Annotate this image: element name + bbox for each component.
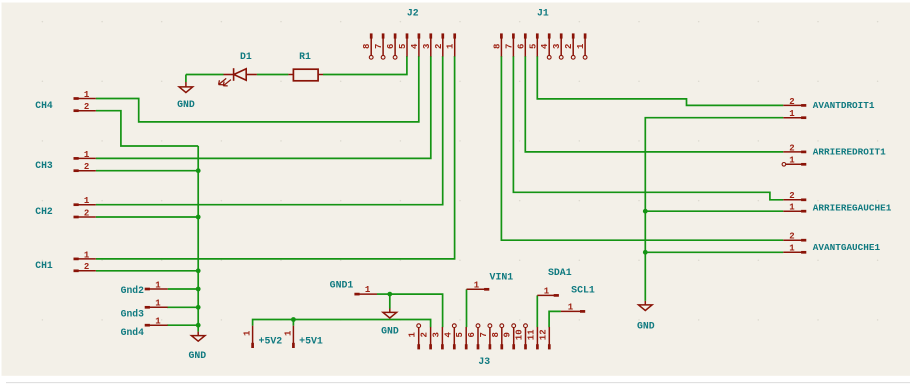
wire +5V rail to J3 pin 2 bbox=[253, 320, 431, 328]
connector CH3 pin 2 bbox=[74, 169, 79, 172]
junction Gnd3/trunk bbox=[196, 305, 201, 310]
svg-text:GND: GND bbox=[188, 350, 206, 361]
svg-text:2: 2 bbox=[420, 332, 430, 337]
wire J1 pin 5 to AVANTDROIT1 pin 2 bbox=[537, 56, 783, 105]
wire GND1 down stub bbox=[389, 294, 391, 308]
wire CH3 pin1 to J2 pin 3 bbox=[96, 56, 431, 158]
connector +5V1 pin 1 bbox=[292, 343, 295, 348]
connector +5V2 pin 1 bbox=[251, 343, 254, 348]
svg-text:1: 1 bbox=[568, 302, 574, 312]
connector AVANTDROIT1 pin 1 bbox=[801, 116, 806, 119]
connector J2 pin 4 bbox=[418, 33, 421, 38]
svg-text:2: 2 bbox=[84, 208, 89, 218]
svg-text:GND: GND bbox=[637, 320, 655, 331]
svg-text:2: 2 bbox=[789, 143, 794, 153]
junction CH2.2/trunk bbox=[196, 215, 201, 220]
svg-text:2: 2 bbox=[84, 162, 89, 172]
svg-text:AVANTDROIT1: AVANTDROIT1 bbox=[813, 100, 875, 111]
wire CH2 pin1 to J2 pin 2 bbox=[96, 56, 443, 205]
wire Gnd2 to trunk bbox=[168, 288, 199, 290]
svg-text:4: 4 bbox=[443, 332, 453, 338]
connector J3 pin 3 bbox=[441, 344, 444, 349]
ground symbol near D1 bbox=[185, 82, 187, 87]
svg-text:1: 1 bbox=[283, 330, 293, 336]
svg-text:D1: D1 bbox=[240, 51, 252, 62]
svg-text:1: 1 bbox=[84, 250, 90, 260]
LED D1 bbox=[219, 68, 257, 86]
connector CH1 pin 1 bbox=[74, 258, 79, 261]
connector ARRIEREGAUCHE1 pin 1 bbox=[801, 210, 806, 213]
svg-text:1: 1 bbox=[576, 43, 586, 49]
svg-text:1: 1 bbox=[789, 156, 795, 166]
ground symbol right trunk bbox=[644, 301, 646, 305]
svg-text:2: 2 bbox=[789, 97, 794, 107]
svg-text:8: 8 bbox=[491, 332, 501, 337]
wire CH3 pin2 to GND trunk bbox=[96, 170, 198, 172]
resistor R1 bbox=[288, 69, 323, 81]
wire CH1 pin2 to GND trunk bbox=[96, 270, 198, 272]
svg-text:4: 4 bbox=[410, 43, 420, 49]
connector J3 pin 8 bbox=[500, 344, 503, 349]
svg-text:5: 5 bbox=[455, 332, 465, 337]
wire right GND trunk from AVANTDROIT1 pin 1 bbox=[645, 118, 783, 301]
connector CH2 pin 2 bbox=[74, 216, 79, 219]
connector CH4 pin 2 bbox=[74, 109, 79, 112]
connector J3 pin 1 bbox=[417, 344, 420, 349]
svg-text:1: 1 bbox=[84, 90, 90, 100]
wire SDA1 to J3 pin 11 bbox=[536, 295, 538, 327]
connector J1 pin 3 bbox=[560, 33, 563, 38]
connector J2 pin 1 bbox=[453, 33, 456, 38]
svg-text:Gnd4: Gnd4 bbox=[121, 327, 144, 338]
svg-text:5: 5 bbox=[528, 44, 538, 49]
svg-text:7: 7 bbox=[479, 332, 489, 337]
svg-text:2: 2 bbox=[789, 232, 794, 242]
junction AVANTGAUCHE1.1/right trunk bbox=[643, 250, 648, 255]
wire D1 to R1 bbox=[257, 74, 289, 76]
svg-text:1: 1 bbox=[155, 317, 161, 327]
wire Gnd4 to trunk bbox=[167, 324, 198, 326]
svg-text:1: 1 bbox=[155, 299, 161, 309]
svg-text:5: 5 bbox=[398, 44, 408, 49]
svg-text:CH1: CH1 bbox=[35, 260, 53, 271]
connector CH1 pin 2 bbox=[74, 269, 79, 272]
svg-text:SCL1: SCL1 bbox=[571, 285, 595, 296]
junction CH3.2/trunk bbox=[196, 168, 201, 173]
svg-text:12: 12 bbox=[538, 329, 548, 340]
wire J1 pin 7 to ARRIEREGAUCHE1 pin 2 bbox=[513, 56, 783, 200]
connector SDA1 pin 1 bbox=[554, 294, 559, 297]
connector ARRIEREDROIT1 pin 2 bbox=[801, 151, 806, 154]
svg-text:R1: R1 bbox=[299, 51, 311, 62]
connector CH4 pin 1 bbox=[74, 97, 79, 100]
connector Gnd2 pin 1 bbox=[145, 288, 150, 291]
svg-text:AVANTGAUCHE1: AVANTGAUCHE1 bbox=[813, 242, 881, 253]
wire GND stub vertical bbox=[185, 75, 187, 83]
wire Gnd3 to trunk bbox=[167, 306, 198, 308]
svg-text:2: 2 bbox=[434, 44, 444, 49]
wire GND stub to D1 anode bbox=[186, 74, 224, 76]
connector J1 pin 5 bbox=[536, 33, 539, 38]
connector J1 pin 4 bbox=[548, 33, 551, 38]
wire left GND trunk bbox=[197, 146, 199, 332]
svg-text:1: 1 bbox=[408, 332, 418, 338]
connector VIN1 pin 1 bbox=[484, 288, 489, 291]
svg-text:GND1: GND1 bbox=[330, 279, 354, 290]
wire CH1 pin1 to J2 pin 1 bbox=[96, 56, 455, 259]
connector AVANTGAUCHE1 pin 2 bbox=[801, 239, 806, 242]
svg-text:1: 1 bbox=[155, 280, 161, 290]
svg-text:CH2: CH2 bbox=[35, 206, 53, 217]
svg-text:6: 6 bbox=[516, 44, 526, 49]
wire CH4 pin1 to J2 pin 4 bbox=[96, 56, 419, 122]
connector J3 pin 9 bbox=[512, 344, 515, 349]
junction GND1 bbox=[387, 292, 392, 297]
connector J2 pin 7 bbox=[382, 33, 385, 38]
svg-text:ARRIEREDROIT1: ARRIEREDROIT1 bbox=[813, 147, 886, 158]
connector Gnd4 pin 1 bbox=[145, 324, 150, 327]
svg-text:CH4: CH4 bbox=[35, 100, 53, 111]
svg-text:1: 1 bbox=[544, 286, 550, 296]
svg-text:VIN1: VIN1 bbox=[490, 272, 514, 283]
svg-text:ARRIEREGAUCHE1: ARRIEREGAUCHE1 bbox=[813, 202, 892, 213]
junction CH1.2/trunk bbox=[196, 268, 201, 273]
svg-text:+5V2: +5V2 bbox=[259, 335, 283, 346]
svg-text:2: 2 bbox=[564, 44, 574, 49]
svg-text:1: 1 bbox=[84, 150, 90, 160]
svg-text:J1: J1 bbox=[537, 7, 549, 18]
connector AVANTDROIT1 pin 2 bbox=[801, 104, 806, 107]
junction Gnd2/trunk bbox=[196, 287, 201, 292]
connector AVANTGAUCHE1 pin 1 bbox=[801, 251, 806, 254]
connector J3 pin 7 bbox=[489, 344, 492, 349]
svg-text:6: 6 bbox=[386, 44, 396, 49]
svg-text:2: 2 bbox=[789, 191, 794, 201]
connector J1 pin 1 bbox=[584, 33, 587, 38]
svg-text:3: 3 bbox=[431, 332, 441, 337]
connector J2 pin 6 bbox=[394, 33, 397, 38]
connector J3 pin 6 bbox=[477, 344, 480, 349]
svg-text:3: 3 bbox=[552, 44, 562, 49]
svg-text:GND: GND bbox=[381, 326, 399, 337]
svg-text:J2: J2 bbox=[407, 7, 419, 18]
connector J3 pin 10 bbox=[524, 344, 527, 349]
svg-text:3: 3 bbox=[422, 44, 432, 49]
wire J1 pin 6 to ARRIEREDROIT1 pin 2 bbox=[525, 56, 783, 152]
connector J3 pin 11 bbox=[536, 344, 539, 349]
junction +5V1/rail bbox=[291, 317, 296, 322]
connector GND1 pin 1 bbox=[354, 293, 359, 296]
svg-text:1: 1 bbox=[84, 196, 90, 206]
ground symbol under GND1 bbox=[389, 309, 391, 313]
connector Gnd3 pin 1 bbox=[145, 306, 150, 309]
wire AVANTGAUCHE1 pin 1 to right trunk bbox=[645, 251, 783, 253]
svg-text:9: 9 bbox=[503, 332, 513, 337]
connector J1 pin 2 bbox=[572, 33, 575, 38]
svg-text:1: 1 bbox=[474, 280, 480, 290]
ground symbol under left trunk bbox=[197, 332, 199, 336]
connector J1 pin 6 bbox=[524, 33, 527, 38]
svg-text:8: 8 bbox=[362, 44, 372, 49]
svg-text:6: 6 bbox=[467, 332, 477, 337]
wire VIN1 to J3 pin 5 bbox=[466, 289, 468, 327]
svg-text:SDA1: SDA1 bbox=[548, 267, 572, 278]
svg-text:GND: GND bbox=[177, 99, 195, 110]
connector CH2 pin 1 bbox=[74, 203, 79, 206]
svg-text:1: 1 bbox=[789, 203, 795, 213]
svg-text:1: 1 bbox=[365, 285, 371, 295]
svg-text:1: 1 bbox=[243, 330, 253, 336]
svg-text:2: 2 bbox=[84, 102, 89, 112]
wire R1 to J2 pin 5 bbox=[323, 56, 407, 75]
wire SCL1 to J3 pin 12 bbox=[549, 311, 561, 327]
connector CH3 pin 1 bbox=[74, 157, 79, 160]
svg-text:8: 8 bbox=[492, 44, 502, 49]
svg-text:CH3: CH3 bbox=[35, 160, 53, 171]
svg-text:1: 1 bbox=[446, 43, 456, 49]
connector J3 pin 4 bbox=[453, 344, 456, 349]
wire CH4 pin2 to GND trunk bbox=[96, 111, 198, 146]
connector J2 pin 8 bbox=[370, 33, 373, 38]
connector J1 pin 8 bbox=[500, 33, 503, 38]
svg-text:Gnd2: Gnd2 bbox=[121, 285, 144, 296]
connector J1 pin 7 bbox=[512, 33, 515, 38]
svg-text:Gnd3: Gnd3 bbox=[121, 308, 144, 319]
wire +5V1 stub bbox=[292, 320, 294, 326]
connector J2 pin 5 bbox=[406, 33, 409, 38]
svg-text:J3: J3 bbox=[478, 356, 490, 367]
svg-text:11: 11 bbox=[526, 329, 536, 340]
wire ARRIEREGAUCHE1 pin 1 to right trunk bbox=[645, 210, 783, 212]
connector ARRIEREGAUCHE1 pin 2 bbox=[801, 198, 806, 201]
connector J3 pin 12 bbox=[548, 344, 551, 349]
wire GND1 to J3 pin 3 bbox=[390, 294, 443, 327]
junction ARRIEREGAUCHE1.1/right trunk bbox=[643, 209, 648, 214]
svg-text:+5V1: +5V1 bbox=[299, 335, 323, 346]
svg-text:1: 1 bbox=[789, 109, 795, 119]
connector J2 pin 2 bbox=[441, 33, 444, 38]
wire CH2 pin2 to GND trunk bbox=[96, 216, 198, 218]
svg-text:1: 1 bbox=[789, 244, 795, 254]
svg-text:7: 7 bbox=[374, 44, 384, 49]
connector J3 pin 2 bbox=[429, 344, 432, 349]
svg-text:2: 2 bbox=[84, 262, 89, 272]
connector J3 pin 5 bbox=[465, 344, 468, 349]
wire J1 pin 8 to AVANTGAUCHE1 pin 2 bbox=[501, 56, 783, 240]
svg-text:10: 10 bbox=[515, 329, 525, 340]
connector J2 pin 3 bbox=[429, 33, 432, 38]
svg-text:4: 4 bbox=[540, 43, 550, 49]
connector SCL1 pin 1 bbox=[580, 310, 585, 313]
connector ARRIEREDROIT1 pin 1 bbox=[801, 163, 806, 166]
junction Gnd4/trunk bbox=[196, 323, 201, 328]
svg-text:7: 7 bbox=[504, 44, 514, 49]
